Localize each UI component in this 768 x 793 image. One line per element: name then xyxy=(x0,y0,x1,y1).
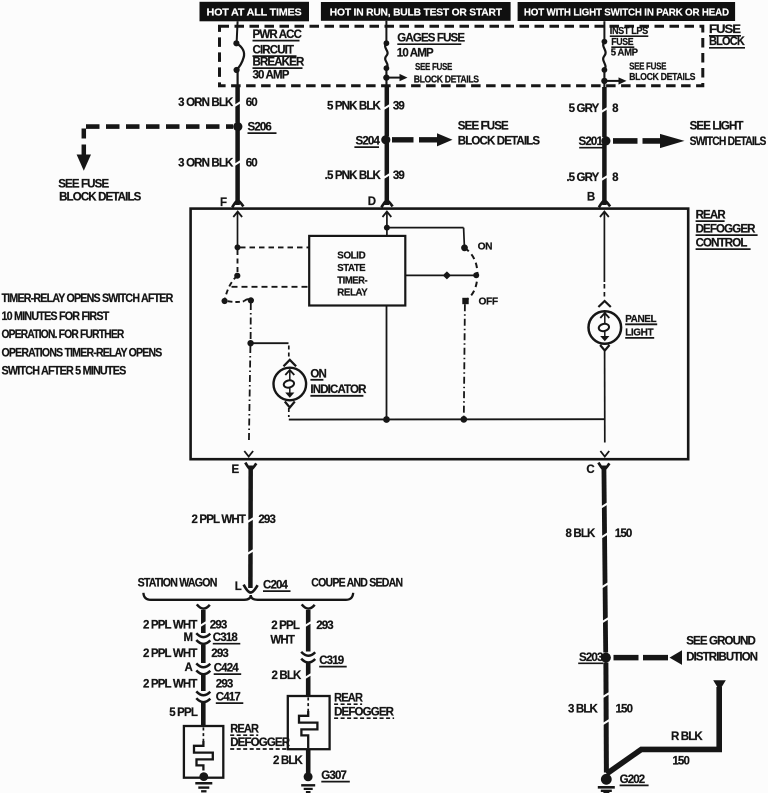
splice S203 xyxy=(578,652,611,664)
arrow (dashed): SEE LIGHT SWITCH DETAILS xyxy=(613,120,767,148)
wire (dashed): S206 to fuse block details arrow xyxy=(84,127,233,155)
svg-text:5 AMP: 5 AMP xyxy=(611,48,639,59)
svg-text:FUSE: FUSE xyxy=(611,37,634,48)
svg-text:A: A xyxy=(185,662,193,674)
svg-text:5 PNK BLK: 5 PNK BLK xyxy=(327,100,382,112)
switch: ON/OFF rocker xyxy=(461,241,498,307)
header box: HOT AT ALL TIMES xyxy=(200,2,310,22)
pin C xyxy=(586,463,609,476)
svg-text:S203: S203 xyxy=(579,652,603,664)
svg-text:OFF: OFF xyxy=(479,296,498,307)
svg-text:10 MINUTES FOR FIRST: 10 MINUTES FOR FIRST xyxy=(2,311,110,323)
svg-text:FUSE: FUSE xyxy=(709,24,741,36)
branch brace: STATION WAGON / COUPE AND SEDAN xyxy=(138,577,403,599)
lamp: PANEL LIGHT xyxy=(589,301,658,351)
svg-text:DEFOGGER: DEFOGGER xyxy=(696,224,757,236)
svg-text:TIMER-RELAY OPENS SWITCH AFTER: TIMER-RELAY OPENS SWITCH AFTER xyxy=(2,293,174,305)
wire: switch output down to pin E xyxy=(244,303,254,457)
header box: HOT WITH LIGHT SWITCH IN PARK OR HEAD xyxy=(518,2,736,21)
svg-text:SEE FUSE: SEE FUSE xyxy=(458,120,509,132)
svg-text:S204: S204 xyxy=(356,136,381,148)
wire: ignition feed to gages fuse xyxy=(385,21,387,43)
wire: wagon branch top pin xyxy=(143,604,227,633)
pin B xyxy=(587,192,610,217)
rear defogger grid (station wagon) xyxy=(184,723,291,781)
svg-text:HOT WITH LIGHT SWITCH IN PARK: HOT WITH LIGHT SWITCH IN PARK OR HEAD xyxy=(524,7,730,19)
wire: gages fuse to S204, 5 PNK BLK 39 xyxy=(327,68,405,136)
svg-text:SWITCH AFTER 5 MINUTES: SWITCH AFTER 5 MINUTES xyxy=(2,366,127,378)
connector C424 pin A xyxy=(185,662,242,674)
wire: light switch feed to INST LPS fuse xyxy=(603,21,605,41)
svg-text:2 PPL WHT: 2 PPL WHT xyxy=(143,679,197,691)
wire break ticks (scan artifacts) xyxy=(199,101,610,724)
svg-text:DEFOGGER: DEFOGGER xyxy=(230,737,291,749)
note: timer-relay operation xyxy=(2,293,174,378)
wire: timer output to switch common xyxy=(405,271,479,279)
svg-text:3 ORN BLK: 3 ORN BLK xyxy=(178,97,234,109)
fuse: GAGES FUSE 10 AMP xyxy=(384,33,466,72)
connector C204 pin L xyxy=(235,580,291,593)
svg-text:3 ORN BLK: 3 ORN BLK xyxy=(178,158,234,170)
wire: 2 PPL WHT 293 (C318 to C424) xyxy=(143,645,228,663)
wire: fuse to S201, 5 GRY 8 xyxy=(569,70,619,137)
wire: S206 to pin F, 3 ORN BLK 60 xyxy=(178,131,257,206)
svg-text:SEE FUSE: SEE FUSE xyxy=(415,62,452,73)
wire: bottom bus xyxy=(289,416,605,423)
svg-text:G307: G307 xyxy=(321,770,346,782)
arrow: SEE FUSE BLOCK DETAILS (down) xyxy=(58,155,141,204)
svg-text:293: 293 xyxy=(211,648,228,660)
svg-text:ON: ON xyxy=(478,241,493,252)
wire: 5 PPL to wagon defogger xyxy=(169,703,203,727)
svg-text:BLOCK DETAILS: BLOCK DETAILS xyxy=(414,74,479,85)
svg-text:HOT IN RUN, BULB TEST OR STAR: HOT IN RUN, BULB TEST OR START xyxy=(330,6,503,18)
wire: panel light to pin C xyxy=(600,351,609,457)
wire: R BLK 150 branch xyxy=(607,680,726,774)
svg-text:LIGHT: LIGHT xyxy=(625,327,654,338)
svg-text:5 PPL: 5 PPL xyxy=(169,707,198,719)
switch: timer relay contact xyxy=(222,250,254,304)
node: switch feed junction xyxy=(235,244,241,250)
connector C417 xyxy=(196,691,243,703)
arrow (dashed): SEE FUSE BLOCK DETAILS (S204) xyxy=(392,120,540,147)
svg-text:L: L xyxy=(235,581,242,593)
wire: pin D to timer and ON contact xyxy=(384,212,464,245)
wire: S203 to G202, 3 BLK 150 xyxy=(568,663,633,773)
arrow: see fuse block details (inst lps) xyxy=(601,62,695,85)
ground G307 xyxy=(301,770,350,792)
svg-text:PANEL: PANEL xyxy=(625,314,656,325)
svg-text:CONTROL: CONTROL xyxy=(696,238,748,250)
wire: branch to ON indicator xyxy=(251,343,289,358)
wire (dashed): timer control line to switch blade xyxy=(232,286,309,288)
wire: breaker to S206, 3 ORN BLK 60 xyxy=(178,70,257,123)
wire: pin E to C204, 2 PPL WHT 293 xyxy=(192,466,276,589)
svg-text:DISTRIBUTION: DISTRIBUTION xyxy=(686,651,758,663)
svg-text:BREAKER: BREAKER xyxy=(253,57,305,69)
svg-text:STATION WAGON: STATION WAGON xyxy=(138,577,217,589)
svg-text:150: 150 xyxy=(616,703,633,715)
svg-text:C318: C318 xyxy=(213,632,239,644)
splice S201 xyxy=(579,136,611,148)
svg-text:60: 60 xyxy=(246,158,258,170)
svg-text:R BLK: R BLK xyxy=(671,731,703,743)
svg-text:WHT: WHT xyxy=(270,635,294,647)
svg-text:2 PPL: 2 PPL xyxy=(271,620,300,632)
connector C319 xyxy=(301,652,347,667)
op-amp / solid state timer-relay U1 xyxy=(309,236,405,306)
svg-text:3 BLK: 3 BLK xyxy=(568,703,599,715)
pin F xyxy=(220,197,243,217)
arrow: see fuse block details (gages) xyxy=(383,62,479,85)
svg-text:D: D xyxy=(368,196,376,208)
svg-text:293: 293 xyxy=(210,620,227,632)
svg-text:INDICATOR: INDICATOR xyxy=(310,384,367,396)
svg-text:F: F xyxy=(220,197,227,209)
pin E xyxy=(232,463,257,476)
svg-text:BLOCK DETAILS: BLOCK DETAILS xyxy=(458,136,541,148)
splice S206 xyxy=(233,122,276,134)
arrow (dashed): SEE GROUND DISTRIBUTION xyxy=(614,636,758,665)
ground G202 xyxy=(598,774,649,793)
header box: HOT IN RUN, BULB TEST OR START xyxy=(321,2,511,21)
svg-text:TIMER-: TIMER- xyxy=(337,275,367,286)
svg-text:ON: ON xyxy=(310,368,326,380)
wire: sedan branch top pin, 2 PPL WHT 293 xyxy=(270,604,333,651)
svg-text:150: 150 xyxy=(615,528,632,540)
svg-text:SEE LIGHT: SEE LIGHT xyxy=(690,120,744,132)
svg-text:B: B xyxy=(587,192,595,204)
svg-text:2 BLK: 2 BLK xyxy=(273,755,304,767)
circuit breaker: PWR ACC CIRCUIT BREAKER 30 AMP xyxy=(233,29,305,82)
svg-text:REAR: REAR xyxy=(696,210,727,222)
pin D xyxy=(368,196,393,217)
svg-text:39: 39 xyxy=(393,100,405,112)
svg-text:2 PPL WHT: 2 PPL WHT xyxy=(143,648,197,660)
svg-text:SOLID: SOLID xyxy=(337,251,365,262)
wire: pin F down to switch junction xyxy=(237,212,239,247)
splice S204 xyxy=(354,135,390,147)
connector C318 pin M xyxy=(184,632,241,644)
svg-text:60: 60 xyxy=(246,97,258,109)
svg-text:G202: G202 xyxy=(620,774,645,786)
svg-text:293: 293 xyxy=(216,679,233,691)
svg-text:S206: S206 xyxy=(248,122,272,134)
svg-text:30 AMP: 30 AMP xyxy=(253,70,290,82)
wire: timer-relay to bus xyxy=(386,306,388,420)
ground (wagon defogger) xyxy=(195,783,212,791)
wire: 2 BLK to sedan defogger xyxy=(272,664,309,697)
wire (dashed): junction to timer-relay xyxy=(240,246,309,248)
svg-text:SEE GROUND: SEE GROUND xyxy=(686,636,755,648)
svg-text:INST LPS: INST LPS xyxy=(610,26,649,37)
svg-text:2 BLK: 2 BLK xyxy=(272,670,303,682)
svg-text:C204: C204 xyxy=(263,580,289,592)
wire: S204 to pin D, .5 PNK BLK 39 xyxy=(325,143,405,205)
svg-text:OPERATION. FOR FURTHER: OPERATION. FOR FURTHER xyxy=(2,329,125,341)
svg-text:BLOCK: BLOCK xyxy=(709,36,745,48)
svg-text:COUPE AND SEDAN: COUPE AND SEDAN xyxy=(311,577,402,589)
svg-text:8 BLK: 8 BLK xyxy=(566,528,597,540)
label REAR DEFOGGER CONTROL xyxy=(696,210,758,250)
svg-text:293: 293 xyxy=(258,514,275,526)
svg-text:2 PPL WHT: 2 PPL WHT xyxy=(143,620,197,632)
svg-text:C424: C424 xyxy=(214,663,240,675)
svg-text:RELAY: RELAY xyxy=(337,288,368,299)
rear defogger grid (coupe and sedan) xyxy=(288,692,395,749)
svg-text:REAR: REAR xyxy=(230,723,259,735)
svg-text:S201: S201 xyxy=(579,136,604,148)
fuse: INST LPS FUSE 5 AMP xyxy=(602,26,649,73)
fuse block label xyxy=(709,24,745,48)
wire: battery feed into fuse block xyxy=(237,21,238,43)
svg-text:PWR ACC: PWR ACC xyxy=(253,29,302,41)
svg-text:.5 GRY: .5 GRY xyxy=(566,172,599,184)
svg-text:HOT AT ALL TIMES: HOT AT ALL TIMES xyxy=(207,6,302,18)
svg-text:2 PPL WHT: 2 PPL WHT xyxy=(192,514,246,526)
rear defogger control box xyxy=(191,209,689,460)
svg-text:M: M xyxy=(184,632,193,644)
svg-text:39: 39 xyxy=(393,170,405,182)
svg-text:OPERATIONS TIMER-RELAY OPENS: OPERATIONS TIMER-RELAY OPENS xyxy=(2,347,163,359)
svg-text:SWITCH DETAILS: SWITCH DETAILS xyxy=(690,136,767,148)
svg-text:C319: C319 xyxy=(319,655,344,667)
wire (dash-dot): OFF contact to bus xyxy=(464,304,465,418)
svg-text:SEE FUSE: SEE FUSE xyxy=(629,62,666,73)
svg-text:BLOCK DETAILS: BLOCK DETAILS xyxy=(629,72,696,83)
svg-text:SEE FUSE: SEE FUSE xyxy=(58,178,109,190)
svg-text:293: 293 xyxy=(316,620,333,632)
wire: 2 PPL WHT 293 (C424 to C417) xyxy=(143,675,233,691)
svg-text:5 GRY: 5 GRY xyxy=(569,103,600,115)
svg-text:BLOCK DETAILS: BLOCK DETAILS xyxy=(59,192,142,204)
fuse block dashed outline xyxy=(220,26,703,86)
svg-text:150: 150 xyxy=(672,756,689,768)
svg-text:E: E xyxy=(232,464,240,476)
wire: pin B to panel light xyxy=(603,212,605,282)
svg-text:REAR: REAR xyxy=(334,692,363,704)
wire: 2 BLK to G307 xyxy=(273,749,308,773)
svg-text:DEFOGGER: DEFOGGER xyxy=(334,706,395,718)
svg-text:C417: C417 xyxy=(216,692,241,704)
svg-text:GAGES FUSE: GAGES FUSE xyxy=(397,33,465,45)
wire: pin C to S203, 8 BLK 150 xyxy=(566,466,632,653)
svg-text:.5 PNK BLK: .5 PNK BLK xyxy=(325,170,382,182)
svg-text:CIRCUIT: CIRCUIT xyxy=(253,45,295,57)
svg-text:C: C xyxy=(586,464,594,476)
svg-text:STATE: STATE xyxy=(337,263,366,274)
wire: S201 to pin B, .5 GRY 8 xyxy=(566,144,619,205)
svg-text:10 AMP: 10 AMP xyxy=(397,47,434,59)
lamp: ON INDICATOR xyxy=(274,360,368,417)
